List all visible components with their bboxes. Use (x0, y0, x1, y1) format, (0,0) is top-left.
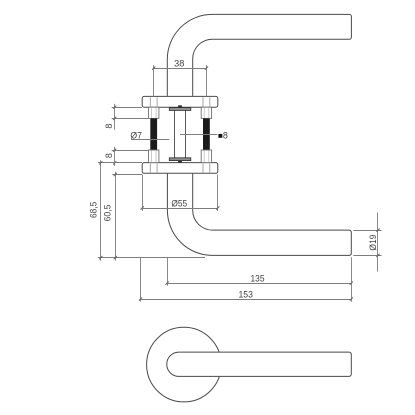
dimension 68.5 (total height) (98, 160, 205, 260)
upper rosette plate (142, 96, 218, 107)
upper plate bolt hole lines (150, 97, 210, 106)
lower plate bolt hole lines (150, 164, 210, 173)
right connecting bolt M4: threaded section (203, 118, 210, 150)
spindle bottom flange (169, 158, 191, 161)
top handle lever (side view, upper) (167, 14, 351, 96)
left connecting bolt M4: upper collar (149, 107, 159, 118)
svg-text:60,5: 60,5 (102, 205, 112, 222)
label diameter 7 with leader (130, 131, 169, 141)
svg-text:153: 153 (239, 289, 253, 299)
svg-text:135: 135 (251, 274, 265, 284)
dimension 38 (bolt hole distance) (152, 65, 208, 96)
svg-text:8: 8 (104, 153, 114, 158)
spindle bottom nub (178, 161, 182, 163)
left connecting bolt M4: lower collar (149, 150, 159, 163)
svg-text:38: 38 (174, 58, 184, 68)
dimension 8 upper (collar height) (112, 104, 149, 130)
dimension 8 lower (collar height) (112, 147, 149, 166)
svg-text:Ø19: Ø19 (368, 235, 378, 251)
lower handle lever (side view, mirrored) (167, 173, 351, 255)
spindle tube body (175, 110, 186, 158)
bottom view: round rose (147, 327, 222, 402)
right connecting bolt M4: lower collar (201, 150, 211, 163)
lower rosette plate (142, 163, 218, 174)
svg-text:68,5: 68,5 (88, 202, 98, 218)
svg-text:Ø7: Ø7 (130, 131, 142, 141)
left connecting bolt M4: threaded section (150, 118, 157, 150)
dimension 153 (total length) (139, 258, 353, 302)
dimension 135 (grip length) (166, 257, 353, 302)
dimension 60.5 (height from rose face) (112, 172, 142, 261)
spindle top nub (178, 105, 182, 107)
shared extension line (lower plate top edge, for dim 8 and 68.5) (98, 162, 142, 164)
svg-text:8: 8 (104, 124, 114, 129)
bottom view: lever (top view) (167, 352, 352, 376)
spindle top flange (169, 108, 191, 111)
right connecting bolt M4: upper collar (201, 107, 211, 118)
dimension diameter 55 (rose) (141, 175, 220, 212)
svg-text:8: 8 (223, 130, 228, 140)
label square 8 spindle with leader (180, 130, 228, 140)
dimension diameter 19 (grip) (353, 213, 381, 272)
svg-text:Ø55: Ø55 (171, 198, 187, 208)
